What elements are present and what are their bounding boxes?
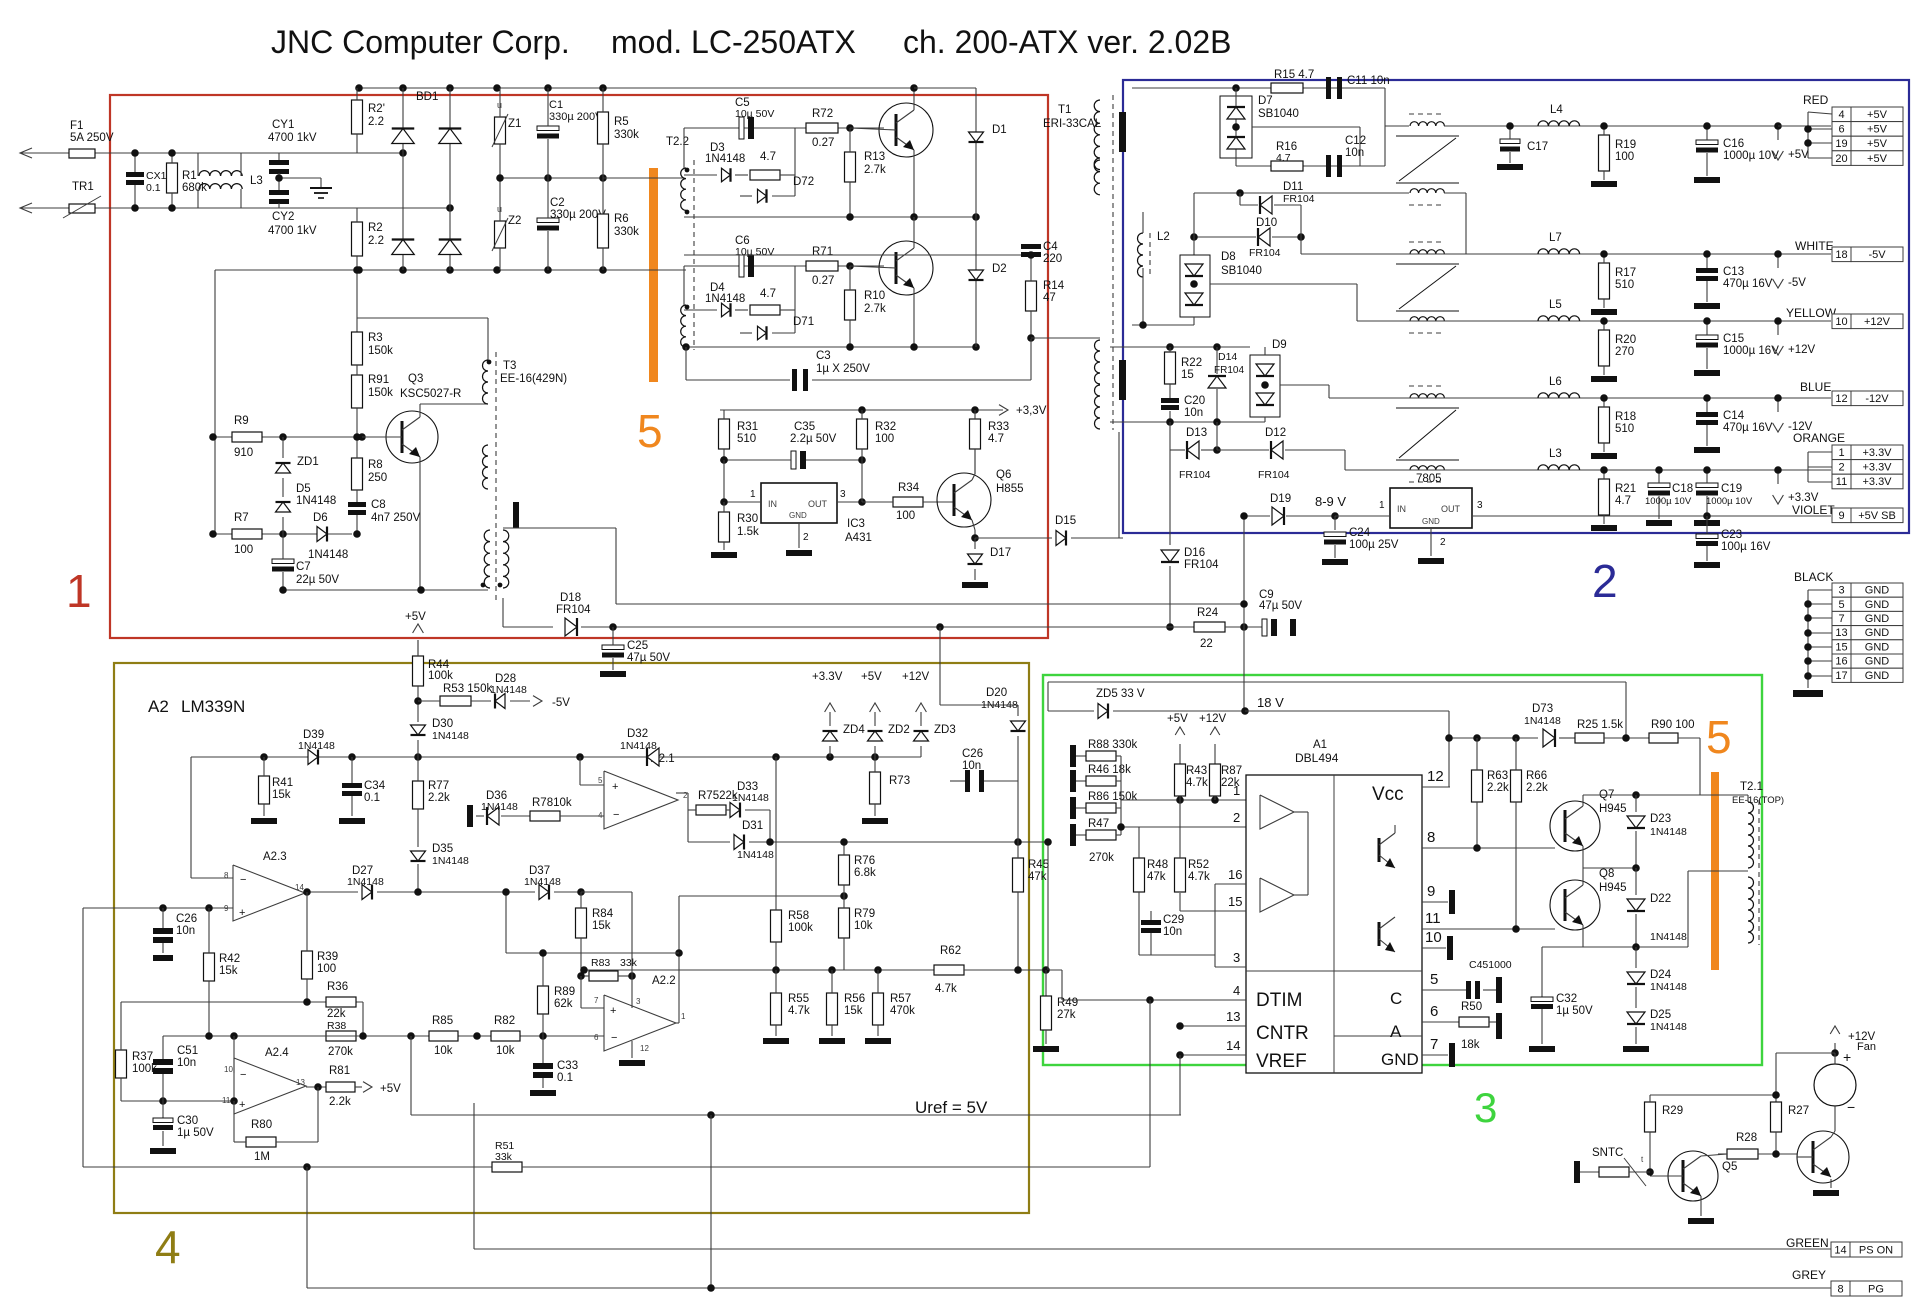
inductor L5: [1538, 316, 1580, 321]
transformer T1 core dashes: [1112, 95, 1114, 430]
svg-text:5: 5: [598, 776, 603, 785]
wire D7 centre tap: [1252, 126, 1360, 128]
svg-text:10k: 10k: [854, 920, 873, 932]
svg-text:4n7 250V: 4n7 250V: [371, 512, 421, 524]
svg-text:R45: R45: [1028, 859, 1049, 871]
wire y604 horizontal: [616, 603, 1244, 605]
varistor Z2: [495, 221, 506, 248]
svg-text:2.7k: 2.7k: [864, 303, 886, 315]
svg-text:100µ 25V: 100µ 25V: [1349, 539, 1399, 551]
diode D73: [1543, 729, 1555, 747]
transistor Q8: [1550, 880, 1600, 930]
svg-text:FR104: FR104: [1179, 469, 1211, 481]
capacitor C13: [1696, 268, 1718, 273]
wire R14 bottom to T1: [1031, 337, 1100, 339]
svg-text:C24: C24: [1349, 527, 1371, 539]
resistor R88: [1070, 745, 1076, 767]
svg-text:CX1: CX1: [146, 170, 167, 182]
wire mid rail: [684, 216, 976, 218]
resistor R52: [1175, 858, 1186, 892]
region box 1 (primary side, red): [110, 95, 1048, 638]
svg-text:C13: C13: [1723, 266, 1744, 278]
wire A2.4 +input: [121, 1100, 234, 1102]
svg-text:R27: R27: [1788, 1105, 1809, 1117]
diode D4: [684, 309, 717, 311]
diode D22: [1635, 868, 1637, 895]
svg-text:+: +: [239, 907, 245, 919]
wire Q6 collector to R33: [972, 474, 975, 480]
svg-text:R31: R31: [737, 421, 758, 433]
wire 18V to IC: [1245, 710, 1449, 712]
resistor R34: [893, 497, 923, 507]
svg-text:8-9 V: 8-9 V: [1315, 494, 1346, 509]
transistor Q1: [879, 103, 933, 157]
diode D73 row: [1449, 737, 1538, 739]
wire A2.3 +input: [83, 907, 233, 909]
svg-text:H945: H945: [1599, 803, 1627, 815]
svg-text:+12V: +12V: [1788, 344, 1816, 356]
resistor R53: [440, 696, 471, 706]
IC pin 15: [1180, 910, 1246, 912]
diode D33: [730, 803, 740, 818]
wire T1 primary top: [1099, 254, 1101, 256]
svg-text:47: 47: [1043, 292, 1056, 304]
svg-text:910: 910: [234, 447, 253, 459]
resistor R83: [589, 971, 618, 981]
svg-text:GND: GND: [1381, 1050, 1419, 1069]
transistor Q5: [1668, 1151, 1718, 1201]
resistor R16: [1271, 161, 1303, 171]
wire Z mid rail: [497, 177, 605, 179]
resistor R37: [116, 1050, 127, 1078]
svg-text:47µ 50V: 47µ 50V: [627, 652, 670, 664]
diode D25: [1627, 1012, 1645, 1024]
wire bottom row y422: [1110, 421, 1265, 423]
svg-text:D8: D8: [1221, 251, 1236, 263]
resistor R20: [1599, 330, 1610, 366]
svg-text:RED: RED: [1803, 93, 1829, 107]
svg-text:D31: D31: [742, 820, 763, 832]
svg-text:PG: PG: [1868, 1283, 1884, 1295]
output choke assembly Z blocks: [1396, 135, 1459, 137]
wire drive bottom rail: [686, 346, 976, 348]
svg-text:5: 5: [637, 405, 663, 457]
resistor R77: [413, 781, 424, 809]
svg-text:15k: 15k: [272, 789, 291, 801]
wire from +5VSB to D20: [940, 704, 1018, 706]
resistor R31: [719, 419, 730, 449]
svg-text:18k: 18k: [1461, 1039, 1480, 1051]
svg-text:4.7: 4.7: [1615, 495, 1631, 507]
wire D33 to D31 node: [769, 810, 771, 842]
svg-text:47k: 47k: [1147, 871, 1166, 883]
svg-text:+3,3V: +3,3V: [1016, 405, 1047, 417]
resistor R3: [352, 332, 363, 365]
svg-text:T1: T1: [1058, 104, 1071, 116]
resistor 4.7 (Q2 drive): [750, 305, 780, 315]
capacitor C25: [602, 645, 624, 650]
svg-text:+3.3V: +3.3V: [1862, 447, 1892, 459]
svg-text:R10: R10: [864, 290, 885, 302]
region box 4 (supervisor, olive): [114, 663, 1029, 1213]
svg-text:1N4148: 1N4148: [347, 876, 384, 888]
svg-text:D12: D12: [1265, 427, 1286, 439]
svg-text:BLUE: BLUE: [1800, 380, 1831, 394]
capacitor C34: [342, 783, 362, 788]
resistor R44: [413, 656, 424, 686]
svg-text:+12V: +12V: [1199, 713, 1227, 725]
diode D10: [1258, 228, 1270, 246]
svg-text:GREY: GREY: [1792, 1268, 1826, 1282]
transistor Q3: [386, 411, 438, 463]
svg-text:2: 2: [1440, 537, 1446, 548]
wire PS-ON row: [474, 1248, 1831, 1250]
resistor R38: [326, 1031, 356, 1041]
svg-text:R80: R80: [251, 1119, 272, 1131]
svg-text:T3: T3: [503, 360, 516, 372]
svg-text:270k: 270k: [1089, 852, 1114, 864]
IC internal comparator 1: [1260, 795, 1294, 829]
svg-text:1N4148: 1N4148: [490, 684, 527, 696]
transistor Q7: [1550, 801, 1600, 851]
transformer T3 core: [495, 352, 497, 600]
capacitor C8: [348, 502, 366, 507]
svg-text:C26: C26: [962, 748, 983, 760]
transformer T2.2 winding top: [681, 168, 686, 210]
wire Q2 emitter to bottom: [913, 288, 915, 347]
svg-text:R87: R87: [1221, 765, 1242, 777]
svg-text:R7810k: R7810k: [532, 797, 572, 809]
resistor R6: [598, 214, 609, 248]
svg-text:27k: 27k: [1057, 1009, 1076, 1021]
svg-text:R28: R28: [1736, 1132, 1757, 1144]
svg-text:D17: D17: [990, 547, 1011, 559]
diode D17: [974, 538, 976, 549]
ground under R30: [711, 552, 737, 558]
svg-text:3: 3: [1474, 1084, 1497, 1131]
capacitor CY2: [269, 190, 289, 195]
T3 core bar: [513, 502, 519, 528]
wire R9 row: [213, 436, 362, 438]
svg-text:13: 13: [1835, 627, 1847, 639]
svg-text:1: 1: [681, 1012, 686, 1021]
wire R3 top branch to T3: [357, 317, 488, 319]
resistor R80: [246, 1137, 276, 1147]
svg-text:13: 13: [296, 1078, 305, 1087]
wire +5VSB row: [1472, 515, 1831, 517]
inductor L3 common-mode choke: [199, 171, 242, 176]
svg-text:Q3: Q3: [408, 373, 423, 385]
svg-text:−: −: [240, 1069, 246, 1081]
capacitor C14: [1696, 412, 1718, 417]
zener ZD1: [282, 437, 284, 458]
svg-text:470µ 16V: 470µ 16V: [1723, 422, 1773, 434]
resistor R30: [719, 512, 730, 542]
AC input arrow bottom: [20, 203, 32, 213]
svg-text:10: 10: [224, 1065, 233, 1074]
svg-text:LM339N: LM339N: [181, 697, 245, 716]
svg-text:3: 3: [636, 997, 641, 1006]
svg-text:GND: GND: [1865, 627, 1890, 639]
+5V down arrow: [1777, 126, 1779, 140]
wire R89 top row: [506, 952, 679, 954]
svg-text:A431: A431: [845, 532, 872, 544]
wire PG riser: [306, 1167, 308, 1288]
svg-text:GND: GND: [1865, 641, 1890, 653]
svg-text:470k: 470k: [890, 1005, 915, 1017]
IC pin 14 VREF: [1180, 1054, 1246, 1056]
svg-text:10n: 10n: [1184, 407, 1203, 419]
svg-text:C2: C2: [550, 197, 565, 209]
wire supervisor top row: [191, 756, 921, 758]
svg-text:3: 3: [1477, 500, 1483, 511]
svg-text:C34: C34: [364, 780, 386, 792]
svg-text:R56: R56: [844, 993, 865, 1005]
capacitor CX1: [126, 172, 144, 177]
resistor R45: [1013, 858, 1024, 892]
svg-text:1N4148: 1N4148: [308, 549, 348, 561]
svg-text:A2.4: A2.4: [265, 1047, 289, 1059]
svg-text:SNTC: SNTC: [1592, 1147, 1623, 1159]
svg-text:22k: 22k: [327, 1008, 346, 1020]
transformer T2.1 winding top: [1748, 802, 1754, 868]
wire Q6 out to D15: [975, 537, 1052, 539]
wire D20 down to R45: [1017, 781, 1019, 842]
svg-text:18: 18: [1835, 249, 1847, 261]
svg-text:D25: D25: [1650, 1009, 1671, 1021]
region box 3 (PWM control, green): [1043, 675, 1762, 1065]
svg-text:Fan: Fan: [1857, 1041, 1876, 1053]
wire T3 secondary to D18 top path: [503, 527, 616, 529]
svg-text:C35: C35: [794, 421, 815, 433]
ground under BLACK: [1807, 682, 1809, 688]
wire D12 to +3.3V rail: [1344, 450, 1346, 470]
svg-text:FR104: FR104: [1184, 559, 1219, 571]
svg-text:C1: C1: [549, 99, 563, 111]
capacitor C20: [1161, 398, 1179, 403]
diode D19: [1272, 507, 1284, 525]
capacitor C7: [272, 559, 294, 564]
resistor R76: [839, 855, 850, 885]
svg-text:KSC5027-R: KSC5027-R: [400, 388, 461, 400]
resistor R91: [352, 375, 363, 408]
IC3 regulator box: [761, 483, 837, 523]
wire fan driver collector: [1831, 1131, 1835, 1137]
svg-text:R82: R82: [494, 1015, 515, 1027]
+12V down arrow: [1777, 321, 1779, 335]
wire fan top node: [1831, 1049, 1839, 1057]
wire fan driver base: [1797, 1156, 1813, 1158]
resistor R36: [326, 997, 356, 1007]
resistor R63: [1472, 770, 1483, 802]
resistor R58: [771, 910, 782, 942]
svg-text:1N4148: 1N4148: [1524, 715, 1561, 727]
svg-text:2.2k: 2.2k: [1526, 782, 1548, 794]
rectifier D8 SB1040: [1193, 193, 1195, 255]
inductor L3 output: [1538, 465, 1580, 470]
resistor R89: [538, 986, 549, 1014]
svg-text:EE-16(429N): EE-16(429N): [500, 373, 567, 385]
svg-text:CY1: CY1: [272, 119, 294, 131]
+3.3V arrow supervisor: [825, 703, 836, 712]
wire D8 centre tap to +12V rail: [1210, 283, 1357, 285]
svg-text:WHITE: WHITE: [1795, 239, 1834, 253]
wire A2.2 output feedback riser: [676, 1022, 679, 1024]
svg-text:1000µ 10V: 1000µ 10V: [1706, 496, 1753, 507]
orange isolation bar right (5): [1711, 772, 1719, 970]
wire pin4 riser: [1061, 970, 1063, 1000]
diode D16: [1169, 455, 1171, 545]
capacitor C17: [1500, 139, 1520, 144]
svg-text:R77: R77: [428, 780, 449, 792]
IC pin 7: [1422, 1054, 1448, 1056]
capacitor C15: [1696, 335, 1718, 340]
IC A1 DBL494 box: [1246, 775, 1422, 1073]
svg-text:R53 150k: R53 150k: [443, 683, 492, 695]
svg-text:C30: C30: [177, 1115, 198, 1127]
svg-text:FR104: FR104: [1283, 193, 1315, 205]
wire left column down from bottom rail: [214, 270, 216, 534]
resistor R85: [429, 1031, 458, 1041]
diode D1: [975, 88, 977, 217]
svg-text:R43: R43: [1186, 765, 1207, 777]
diode D15: [1056, 531, 1066, 546]
svg-text:4700 1kV: 4700 1kV: [268, 225, 317, 237]
svg-text:-5V: -5V: [1788, 277, 1806, 289]
svg-text:-12V: -12V: [1865, 393, 1889, 405]
wire +12V output row: [1357, 320, 1831, 322]
svg-text:C451000: C451000: [1469, 959, 1512, 971]
svg-text:C12: C12: [1345, 135, 1366, 147]
wire IC pin1 row: [1121, 799, 1246, 801]
svg-text:100: 100: [1615, 151, 1634, 163]
svg-text:+: +: [1843, 1049, 1851, 1065]
svg-text:10n: 10n: [1345, 147, 1364, 159]
svg-text:4.7k: 4.7k: [1186, 777, 1208, 789]
bridge BD1 diode 1: [402, 88, 404, 270]
svg-text:47µ 50V: 47µ 50V: [1259, 600, 1302, 612]
inductor L6: [1538, 393, 1580, 398]
IC pin 10: [1422, 947, 1446, 949]
wire AC line bottom: [20, 207, 403, 209]
svg-text:Vcc: Vcc: [1372, 784, 1404, 805]
svg-text:C33: C33: [557, 1060, 578, 1072]
wire A2.2 + input: [580, 976, 582, 1008]
wire Q8 emitter rail: [1542, 946, 1688, 948]
resistor R42: [204, 953, 215, 981]
svg-text:A2: A2: [148, 697, 169, 716]
svg-text:R58: R58: [788, 910, 809, 922]
svg-text:2.2k: 2.2k: [428, 792, 450, 804]
transformer T1 core bar top: [1119, 112, 1126, 152]
svg-text:4: 4: [598, 811, 603, 820]
wire A2.3 out riser to R89 row: [505, 892, 507, 953]
svg-text:A1: A1: [1313, 739, 1327, 751]
resistor R19: [1599, 135, 1610, 171]
capacitor C4: [1021, 244, 1041, 249]
wire pin11 to Q8 base: [1448, 928, 1555, 930]
resistor R18: [1599, 407, 1610, 443]
svg-text:ZD5 33 V: ZD5 33 V: [1096, 688, 1145, 700]
svg-text:330µ 200V: 330µ 200V: [549, 111, 603, 123]
resistor R78: [530, 811, 560, 821]
svg-text:10: 10: [1425, 929, 1442, 946]
svg-text:R34: R34: [898, 482, 920, 494]
svg-text:8: 8: [1427, 829, 1435, 846]
wire fan row to R29: [1650, 1094, 1776, 1096]
-12V down arrow: [1777, 398, 1779, 412]
svg-text:−: −: [613, 809, 619, 821]
svg-text:+3.3V: +3.3V: [1862, 462, 1892, 474]
wire bottom DC rail: [215, 269, 686, 271]
diode D28: [495, 694, 505, 709]
svg-text:2.2k: 2.2k: [329, 1096, 351, 1108]
wire R90 to Q7 collector rail: [1678, 737, 1700, 739]
resistor R2: [352, 222, 363, 256]
svg-text:14: 14: [1226, 1038, 1240, 1053]
wire AC bottom to bridge: [279, 207, 450, 209]
svg-text:R25 1.5k: R25 1.5k: [1577, 719, 1623, 731]
svg-text:4.7: 4.7: [760, 288, 776, 300]
+12V arrow supervisor: [916, 703, 927, 712]
svg-text:10n: 10n: [176, 925, 195, 937]
svg-text:10µ 50V: 10µ 50V: [735, 246, 774, 258]
capacitor CY1: [269, 160, 289, 165]
diode D13: [1169, 422, 1171, 450]
-5V arrow: [533, 696, 542, 707]
svg-text:17: 17: [1835, 670, 1847, 682]
svg-text:GND: GND: [1422, 517, 1440, 526]
resistor R28: [1727, 1149, 1758, 1159]
svg-text:FR104: FR104: [556, 604, 591, 616]
wire pin3/C29 bottom row: [1139, 954, 1215, 956]
svg-text:C51: C51: [177, 1045, 198, 1057]
svg-text:1: 1: [1838, 447, 1844, 459]
svg-text:H855: H855: [996, 483, 1024, 495]
wire A2.4 output: [306, 1086, 326, 1088]
wire +3.3V rail: [720, 409, 1003, 411]
wires into BLACK table: [1808, 589, 1832, 591]
svg-text:R48: R48: [1147, 859, 1168, 871]
resistor 4.7 (Q1 drive): [750, 170, 780, 180]
IC internal divider lines: [1333, 775, 1335, 1073]
IC pin 13 CNTR: [1180, 1025, 1246, 1027]
svg-text:1N4148: 1N4148: [432, 855, 469, 867]
ground under C25: [600, 671, 626, 677]
op-amp A2.3: [233, 865, 305, 921]
resistor R51: [492, 1162, 522, 1172]
capacitor C2: [537, 218, 559, 223]
svg-text:11: 11: [1836, 476, 1847, 488]
wire -12V output row: [1329, 397, 1831, 399]
svg-text:D5: D5: [296, 483, 311, 495]
diode D35: [411, 851, 426, 861]
svg-text:R47: R47: [1088, 818, 1109, 830]
capacitor C12: [1326, 155, 1331, 177]
+5V arrow A2.4: [355, 1086, 362, 1088]
svg-text:16: 16: [1835, 656, 1847, 668]
wire Q7 emitter: [1582, 846, 1584, 868]
svg-text:+5V: +5V: [1867, 124, 1888, 136]
capacitor C5: [739, 117, 744, 139]
svg-text:A: A: [1390, 1022, 1402, 1041]
resistor R71: [806, 261, 838, 271]
wire R3 column: [356, 270, 358, 332]
IC pin 5: [1422, 989, 1466, 991]
ground input filter: [320, 178, 322, 188]
svg-text:R18: R18: [1615, 411, 1636, 423]
svg-text:D19: D19: [1270, 493, 1291, 505]
